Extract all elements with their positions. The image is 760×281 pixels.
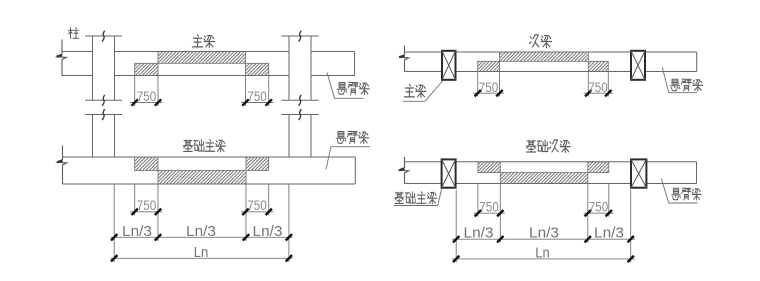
svg-text:750: 750 [589,199,609,215]
cantilever label 悬臂梁 with leader [327,73,364,99]
label 柱 (column) [68,28,78,39]
svg-text:750: 750 [137,88,157,104]
svg-text:Ln/3: Ln/3 [529,225,559,242]
right column above beam [282,115,319,158]
extension lines [456,184,631,263]
left column above beam [85,115,122,158]
beam top line [405,51,697,53]
cantilever label 悬臂梁 with leader [661,179,697,204]
svg-text:Ln/3: Ln/3 [122,223,152,240]
beam left break edge [57,146,67,185]
dimension line 750 right [584,92,614,94]
left hatch zone (bottom) [135,63,158,75]
right hatch zone (top) [246,157,269,171]
central hatch zone (top) [158,52,246,64]
ticks [475,90,612,96]
label 基础主梁 [183,140,193,151]
left column break marks [102,31,105,106]
beam right end [354,157,356,184]
dimension line Ln [452,258,635,260]
dimension line 750 left [130,211,163,213]
ticks Ln [111,255,292,261]
right column break marks [299,31,302,106]
svg-text:750: 750 [247,88,267,104]
label 基础主梁 with leader and underline [394,188,442,205]
dimension line Ln [111,257,293,259]
beam top line [405,161,697,163]
svg-text:750: 750 [247,197,267,213]
dimension line 750 left [130,102,163,104]
label 主梁 [192,35,202,47]
svg-text:750: 750 [479,79,499,95]
label 次梁 [529,35,539,47]
svg-text:Ln: Ln [194,244,209,261]
ticks 750 [132,209,272,215]
dimension line 750 right [241,211,274,213]
beam bottom line [405,71,697,73]
left hatch zone (bottom) [478,61,500,71]
beam bottom line [62,75,355,77]
left column break mark [102,109,105,120]
right column break mark [299,109,302,120]
girder label 主梁 with leader [403,81,443,102]
svg-text:750: 750 [479,199,499,215]
ticks Ln/3 [453,236,634,242]
label 基础次梁 [526,140,536,152]
left crossed box (girder section) [442,51,456,80]
ticks [132,99,272,105]
ticks Ln [453,256,634,262]
central hatch zone (top) [500,52,589,61]
svg-text:Ln: Ln [535,244,550,261]
central hatch zone (bottom) [158,171,246,185]
ticks 750 [475,210,612,216]
cantilever label 悬臂梁 with leader [326,147,370,170]
dimension line 750 right [241,102,274,104]
beam left break edge [399,157,409,184]
ticks Ln/3 [111,234,292,240]
dimension line 750 left [474,212,506,214]
beam top line [62,51,355,53]
right hatch zone (bottom) [588,61,608,71]
svg-text:Ln/3: Ln/3 [464,225,494,242]
svg-text:Ln/3: Ln/3 [186,223,216,240]
beam bottom line [63,183,356,185]
dimension line 750 left [473,92,504,94]
svg-text:750: 750 [137,197,157,213]
beam left break edge [399,46,409,72]
right hatch zone (bottom) [246,63,269,75]
svg-text:Ln/3: Ln/3 [253,223,283,240]
beam left break edge [57,40,67,76]
left column [85,36,122,100]
right column [282,36,319,100]
central hatch zone (bottom) [500,173,588,184]
left hatch zone (top) [135,157,158,171]
svg-text:Ln/3: Ln/3 [594,225,624,242]
extension lines for 750 dims [135,76,269,107]
extension lines [114,184,289,262]
left hatch zone (top) [478,162,500,173]
left crossed box [442,159,456,187]
beam right end [354,52,356,76]
dimension line Ln/3 [452,238,635,240]
beam right end [696,52,698,72]
dimension line 750 right [584,212,614,214]
right hatch zone (top) [588,162,609,173]
right crossed box [631,51,645,80]
beam top line [63,156,356,158]
beam right end [696,162,698,184]
extension lines for 750 dims [478,72,609,97]
right crossed box [631,159,646,187]
cantilever label 悬臂梁 with leader [662,68,697,93]
beam bottom line [405,183,697,185]
dimension line Ln/3 [111,236,293,238]
svg-text:750: 750 [588,79,608,95]
